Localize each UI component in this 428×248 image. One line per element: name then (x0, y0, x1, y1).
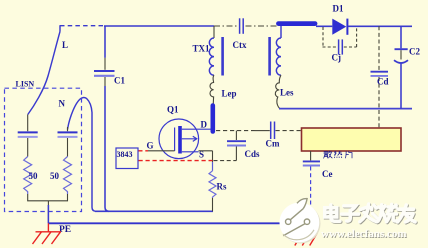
wire (68, 97, 97, 211)
wire (279, 108, 412, 110)
svg-text:www.elecfans.com: www.elecfans.com (321, 228, 407, 240)
wire (214, 25, 277, 27)
svg-text:50: 50 (29, 171, 39, 181)
wire (104, 25, 214, 27)
wire (28, 194, 68, 223)
svg-text:D1: D1 (333, 4, 344, 14)
transistor Q1 (147, 105, 211, 160)
wire (276, 130, 302, 132)
core (TX1 secondary) (268, 37, 271, 76)
capacitor (LISN left) (18, 115, 38, 157)
inductor (TX1 secondary) (276, 38, 281, 75)
watermark url (321, 228, 407, 241)
ground PE (33, 223, 62, 244)
wire (310, 151, 312, 160)
wire (48, 222, 311, 224)
resistor 50 (left) (24, 157, 32, 195)
wire (280, 26, 282, 38)
wire (216, 130, 254, 132)
svg-text:C2: C2 (409, 47, 420, 57)
wire (thick drain bar) (211, 106, 216, 132)
capacitor C1 (94, 26, 125, 86)
svg-text:Rs: Rs (217, 182, 227, 192)
wire (139, 150, 149, 152)
capacitor Cj (323, 27, 357, 62)
capacitor Cd (371, 26, 389, 128)
svg-text:Lep: Lep (222, 89, 237, 99)
wire (60, 25, 104, 27)
svg-text:TX1: TX1 (193, 44, 211, 54)
svg-text:Cd: Cd (377, 77, 389, 87)
wire (199, 151, 213, 162)
resistor Rs (209, 162, 227, 211)
capacitor Ce (303, 161, 333, 179)
wire (139, 160, 213, 162)
capacitor (LISN right) (58, 127, 78, 157)
label heatsink (323, 151, 352, 158)
svg-text:Ce: Ce (322, 169, 333, 179)
wire (95, 210, 213, 212)
watermark logo (280, 198, 321, 244)
svg-text:C1: C1 (114, 76, 125, 86)
capacitor Cm (266, 122, 280, 149)
inductor Les (275, 75, 294, 108)
wire (214, 160, 237, 162)
resistor 50 (right) (64, 157, 72, 195)
inductor (TX1 primary) (209, 38, 214, 75)
ground (secondary) (295, 223, 317, 245)
wire (148, 150, 175, 152)
heatsink (302, 128, 402, 151)
svg-text:Cm: Cm (266, 139, 280, 149)
wire (310, 167, 312, 223)
capacitor Cds (227, 131, 260, 161)
IC 3843 (116, 148, 138, 169)
LISN box (5, 88, 82, 211)
wire (316, 25, 332, 27)
svg-text:Cds: Cds (245, 149, 261, 159)
svg-text:L: L (62, 40, 68, 50)
wire (348, 25, 412, 27)
svg-text:Ctx: Ctx (233, 40, 247, 50)
svg-text:N: N (59, 99, 66, 109)
wire (105, 86, 109, 211)
diode D1 (332, 4, 347, 35)
svg-text:LISN: LISN (16, 79, 35, 88)
wire (213, 26, 215, 38)
svg-text:Cj: Cj (332, 52, 342, 62)
wire (47, 205, 49, 223)
svg-text:PE: PE (59, 225, 71, 235)
capacitor C2 (394, 26, 420, 108)
watermark text (325, 204, 416, 223)
wire (thick bar) (279, 21, 316, 26)
inductor Lep (210, 75, 237, 105)
capacitor Ctx (233, 18, 247, 50)
svg-text:Les: Les (280, 88, 294, 98)
wire (28, 32, 60, 115)
svg-text:D: D (201, 120, 208, 130)
svg-text:G: G (147, 141, 154, 151)
svg-text:Q1: Q1 (167, 105, 179, 115)
wire (254, 130, 270, 132)
svg-text:50: 50 (50, 171, 60, 181)
core (TX1 primary) (221, 37, 224, 76)
svg-text:3843: 3843 (117, 150, 133, 159)
